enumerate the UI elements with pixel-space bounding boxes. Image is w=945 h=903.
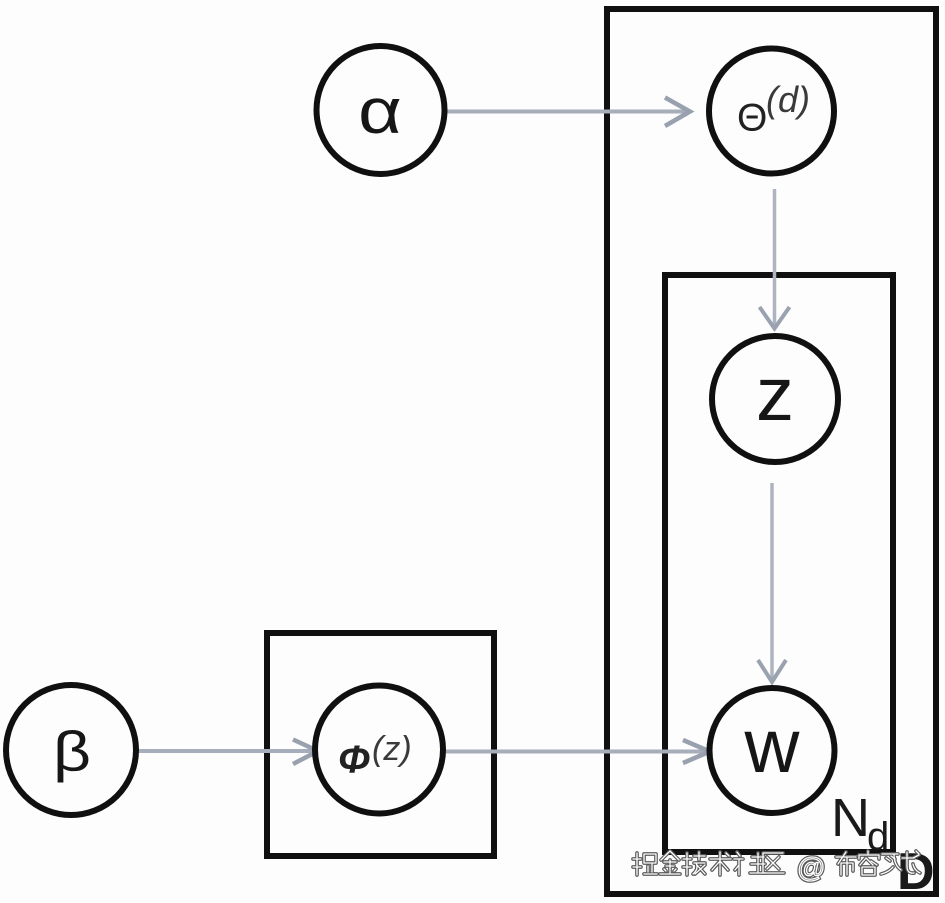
node phi (circle): [315, 686, 443, 814]
svg-text:(z): (z): [372, 730, 412, 768]
arrow z to w: [758, 483, 786, 682]
node alpha (circle): [317, 46, 445, 174]
watermark dark outline pass: [633, 851, 920, 883]
node beta (circle): [6, 685, 136, 815]
arrow theta to z: [760, 189, 790, 329]
node z (circle): [712, 336, 838, 462]
plate N_d (inner rectangle): [665, 275, 893, 852]
arrow alpha to theta: [445, 98, 690, 127]
svg-text:β: β: [53, 720, 91, 784]
arrow phi to w: [443, 740, 710, 763]
arrow beta to phi: [136, 740, 318, 765]
svg-text:(d): (d): [766, 79, 810, 120]
svg-text:Φ: Φ: [338, 739, 370, 782]
svg-text:w: w: [744, 704, 801, 789]
node w (circle): [710, 688, 835, 813]
svg-text:α: α: [358, 75, 402, 146]
label beta: [53, 720, 91, 784]
svg-text:N: N: [831, 788, 870, 848]
label alpha: [358, 75, 402, 146]
watermark white core pass: [633, 851, 920, 883]
svg-text:Θ: Θ: [737, 97, 767, 140]
label phi^(z): [338, 730, 412, 782]
label N_d: [831, 788, 889, 859]
label theta^(d): [737, 79, 810, 140]
svg-text:z: z: [756, 352, 794, 437]
node theta (circle): [709, 49, 834, 174]
plate phi (small rectangle): [267, 633, 494, 856]
plate D (outer rectangle): [607, 9, 936, 894]
